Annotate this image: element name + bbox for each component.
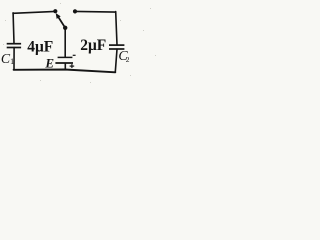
svg-text:2μF: 2μF (80, 37, 106, 54)
svg-text:E: E (44, 56, 54, 71)
svg-text:2: 2 (126, 55, 130, 64)
svg-text:1: 1 (10, 57, 14, 66)
svg-text:4μF: 4μF (27, 39, 53, 56)
